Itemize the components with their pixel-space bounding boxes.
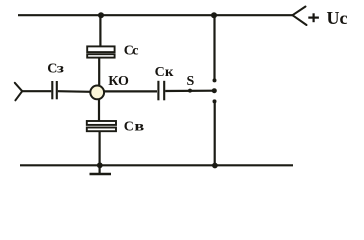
svg-text:Сс: Сс <box>124 44 139 59</box>
wire top rail to Cc <box>99 15 101 46</box>
wire KO node to Ck <box>104 90 158 92</box>
terminal input chevron (left) <box>15 83 22 101</box>
wire Cb to bottom rail <box>98 132 100 166</box>
capacitor Ck plates <box>158 81 164 101</box>
svg-text:С: С <box>155 65 165 80</box>
label + (plus sign of supply) <box>308 13 319 22</box>
svg-text:КО: КО <box>108 74 129 89</box>
ground <box>90 165 112 174</box>
svg-text:з: з <box>57 61 65 76</box>
svg-text:Uc: Uc <box>327 8 348 28</box>
label C3 <box>47 61 64 76</box>
svg-text:S: S <box>187 74 195 89</box>
terminal +Uc chevron <box>293 7 307 26</box>
wire Cc to KO node <box>98 59 100 87</box>
wire top rail to switch upper contact <box>213 15 215 79</box>
label Cb <box>124 118 145 134</box>
node S pivot dot <box>188 89 192 93</box>
svg-text:в: в <box>134 118 144 134</box>
svg-text:С: С <box>124 120 134 135</box>
node junction dot bottom rail right <box>212 163 218 169</box>
wire input to C3 <box>22 90 51 92</box>
capacitor Cb plates <box>87 121 116 131</box>
svg-text:к: к <box>165 64 174 79</box>
wire switch lower contact to bottom rail <box>214 103 216 166</box>
node KO circle <box>90 86 104 100</box>
node junction dot switch common <box>212 88 217 93</box>
wire bottom rail <box>20 164 293 166</box>
node junction dot bottom rail at ground <box>97 162 103 168</box>
wire top +Uc rail <box>18 14 293 16</box>
wire C3 to KO node <box>58 90 91 93</box>
wire Ck to switch junction <box>165 90 214 93</box>
switch S upper contact dot <box>213 78 217 82</box>
capacitor Cc plates <box>87 46 114 57</box>
node junction dot on top rail above Cc <box>98 12 104 18</box>
node junction dot on top rail at right branch <box>211 12 217 18</box>
capacitor C3 plates <box>52 81 57 99</box>
switch S lower contact dot <box>213 99 217 103</box>
wire KO node to Cb <box>98 99 100 121</box>
label Ck <box>155 64 175 80</box>
